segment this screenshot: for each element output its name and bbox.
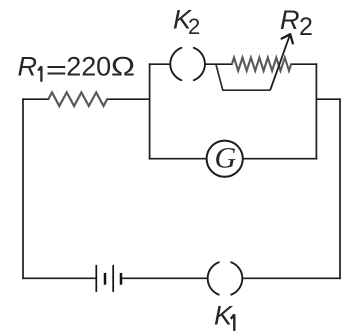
galvanometer G circle	[207, 141, 243, 177]
wire: switch K2 to R2	[206, 63, 232, 65]
rheostat R2 wiper arrowhead	[282, 34, 293, 43]
switch K1	[208, 262, 243, 294]
wire: battery to switch K1	[122, 277, 208, 279]
wire: switch K1 to bottom-right corner	[243, 277, 340, 279]
rheostat R2 zigzag	[232, 58, 291, 71]
wire: inner loop left vertical	[149, 64, 151, 159]
svg-text:220: 220	[66, 51, 111, 81]
wire: top-left horizontal from left rail to R1	[23, 98, 48, 100]
rheostat R2 tap wire (trapezoid)	[216, 64, 270, 90]
wire: top branch to switch K2	[150, 63, 169, 65]
wire: R2 to inner loop right vertical	[291, 63, 316, 65]
battery cell 2 positive plate (long)	[112, 265, 114, 292]
label K1	[231, 314, 235, 331]
wire: right connector into inner loop	[316, 98, 340, 100]
resistor R1	[48, 92, 107, 106]
wire: left rail vertical	[22, 99, 24, 278]
wire: G branch left	[150, 158, 207, 160]
battery cell 1 positive plate (long)	[95, 265, 97, 292]
svg-text:R: R	[18, 51, 38, 81]
svg-text:G: G	[215, 141, 237, 174]
wire: right rail vertical	[339, 99, 341, 278]
battery cell 2 negative plate (short)	[120, 273, 123, 285]
battery cell 1 negative plate (short)	[104, 273, 107, 285]
svg-text:K: K	[214, 300, 233, 330]
wire: bottom left to battery	[23, 277, 95, 279]
wire: G branch right	[243, 158, 316, 160]
wire: R1 to inner-loop left rail	[107, 98, 149, 100]
svg-text:=: =	[46, 54, 67, 84]
switch K2	[170, 48, 205, 80]
label R1=220ohm	[38, 66, 41, 82]
rheostat R2 wiper arrow shaft	[270, 35, 290, 90]
wire: inner loop right vertical	[315, 64, 317, 159]
svg-text:Ω: Ω	[111, 52, 135, 82]
